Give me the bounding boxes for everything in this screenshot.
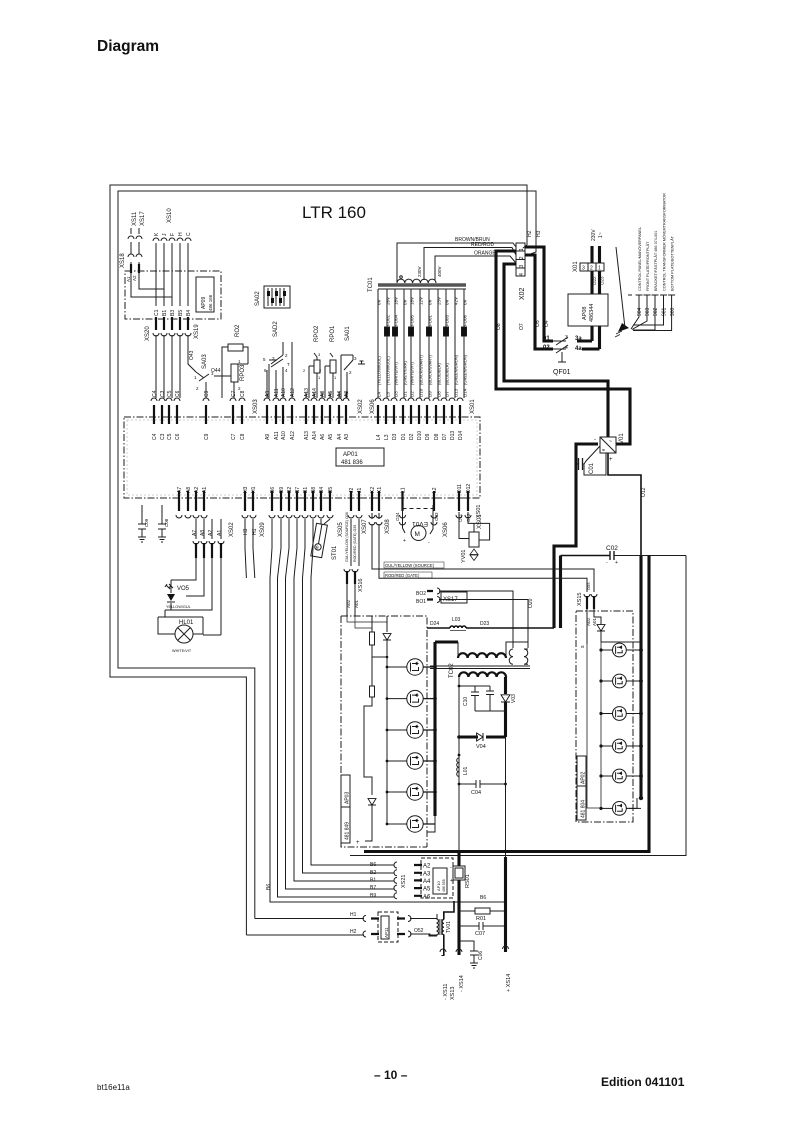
svg-text:A8: A8	[320, 391, 326, 397]
svg-text:B7: B7	[295, 487, 301, 493]
svg-text:J: J	[162, 233, 168, 236]
svg-text:C04: C04	[471, 790, 481, 796]
connector XS15 arcs	[584, 594, 597, 597]
wire labels A9 A11 A10 A12	[265, 388, 296, 397]
QF01 linkage and label	[558, 352, 566, 362]
TC01 secondary wires bundle	[378, 289, 464, 398]
svg-text:A3: A3	[344, 391, 350, 397]
svg-text:O23: O23	[600, 276, 605, 285]
svg-text:901: 901	[662, 307, 668, 316]
svg-text:A9: A9	[265, 391, 271, 397]
MOSFET Q32	[407, 690, 423, 706]
svg-text:A3: A3	[423, 871, 431, 877]
svg-text:D1: D1	[401, 433, 407, 440]
svg-text:3: 3	[582, 266, 585, 272]
svg-text:BOTTOM PLATE/BOTTENPLÅT: BOTTOM PLATE/BOTTENPLÅT	[670, 235, 675, 291]
AP09 value label box	[196, 277, 214, 312]
svg-text:ORANGE: ORANGE	[474, 251, 496, 257]
svg-text:BO1: BO1	[416, 599, 426, 605]
svg-text:D10: D10	[417, 431, 423, 440]
svg-text:A2: A2	[423, 864, 431, 870]
svg-text:400V: 400V	[437, 266, 442, 277]
potentiometer RPO3	[231, 364, 238, 382]
XS02 lower connector arcs	[193, 541, 224, 544]
thermostat ST01	[311, 523, 328, 557]
svg-text:A7: A7	[177, 487, 183, 493]
svg-text:XS02: XS02	[229, 522, 235, 537]
svg-text:C8: C8	[240, 433, 246, 440]
svg-text:3: 3	[519, 265, 525, 268]
svg-text:486 166: 486 166	[208, 294, 213, 311]
XS11/XS17 wires with break arcs	[131, 228, 139, 266]
svg-text:FU03: FU03	[445, 314, 450, 326]
svg-text:O11: O11	[458, 513, 463, 522]
AP01 value label box	[336, 448, 384, 466]
svg-text:+ XS14: + XS14	[506, 974, 512, 992]
XS19/XS20 connector ticks below AP09	[156, 317, 188, 330]
AP01 bottom pin row arcs	[176, 515, 471, 518]
right boundary wire x686	[350, 556, 686, 856]
svg-text:D24: D24	[430, 621, 439, 627]
svg-text:RED/ROD: RED/ROD	[471, 242, 494, 248]
H1 wire to AP11	[246, 919, 364, 936]
wire D24-L03-D23	[427, 627, 554, 629]
svg-text:XS16: XS16	[358, 579, 364, 592]
svg-text:+: +	[403, 538, 406, 544]
svg-text:D13: D13	[450, 431, 456, 440]
XS15 pin ticks	[587, 596, 594, 609]
AP03 lower diode	[368, 799, 376, 805]
thick wire C01-minus down to D24 line	[554, 444, 598, 628]
XS21 pin labels A2-A6	[423, 864, 431, 901]
machine boundary inner loop (wire H3)	[118, 191, 536, 919]
svg-text:B3: B3	[170, 310, 176, 316]
K wires (source/gate feed)	[372, 513, 379, 519]
svg-text:H1: H1	[251, 486, 257, 493]
svg-text:X01: X01	[573, 261, 579, 272]
svg-text:RPO1: RPO1	[330, 325, 336, 342]
svg-text:3: 3	[354, 356, 357, 361]
potentiometer RPO2	[314, 360, 320, 373]
capacitor C08 with ground	[158, 505, 166, 542]
terminal -XS14	[456, 949, 462, 952]
svg-text:C5: C5	[167, 390, 173, 397]
svg-text:(WHITE/VIT): (WHITE/VIT)	[394, 361, 399, 385]
svg-text:(BLUE/BLA): (BLUE/BLA)	[437, 363, 442, 385]
svg-text:A2: A2	[132, 275, 137, 281]
control board AP01 dashed box	[124, 417, 480, 498]
svg-text:-: -	[594, 437, 596, 443]
DIP switch block SA02	[264, 286, 290, 308]
svg-text:A13: A13	[304, 431, 310, 440]
svg-text:RO2: RO2	[235, 324, 241, 337]
XS17 wires and pins	[427, 591, 429, 593]
svg-text:A2: A2	[194, 487, 200, 493]
secondary voltage labels	[377, 297, 468, 305]
svg-text:B9: B9	[279, 487, 285, 493]
svg-text:2: 2	[319, 368, 322, 373]
svg-text:XS10: XS10	[167, 208, 173, 223]
svg-text:+: +	[615, 560, 618, 566]
svg-text:FU04: FU04	[394, 314, 399, 326]
svg-text:B1: B1	[303, 487, 309, 493]
svg-text:A01: A01	[592, 617, 597, 626]
MOSFET Q36	[407, 816, 423, 832]
svg-text:SAD2: SAD2	[273, 321, 279, 337]
svg-text:O4: O4	[544, 320, 550, 327]
svg-text:O8: O8	[496, 323, 502, 330]
svg-text:3: 3	[318, 352, 321, 357]
svg-text:C9: C9	[204, 433, 210, 440]
svg-text:A14: A14	[312, 388, 318, 397]
AP02 gate diode	[597, 625, 605, 631]
switch SAD2 contacts	[269, 342, 283, 398]
svg-text:CONTROL PANEL/MANÖVERPANEL: CONTROL PANEL/MANÖVERPANEL	[638, 227, 642, 291]
svg-text:YV01: YV01	[461, 550, 467, 563]
svg-text:C: C	[186, 232, 192, 236]
svg-text:A10: A10	[281, 388, 287, 397]
svg-text:V04: V04	[476, 744, 486, 750]
svg-text:A1: A1	[217, 530, 223, 536]
MOSFET Q31	[407, 659, 423, 675]
svg-text:RPO2: RPO2	[314, 325, 320, 342]
svg-text:FRONT PLATE/FRONTPLÅT: FRONT PLATE/FRONTPLÅT	[645, 241, 650, 291]
svg-text:Diagram: Diagram	[97, 38, 159, 55]
svg-text:481 836: 481 836	[341, 460, 363, 466]
svg-text:XS01: XS01	[470, 399, 476, 414]
TV01 primary wires from AP11	[414, 919, 437, 936]
svg-text:D12: D12	[466, 484, 472, 493]
svg-text:-: -	[428, 540, 430, 546]
thick wire from C02 node down (x560)	[559, 556, 562, 629]
AP03 drain thick rail	[433, 642, 436, 816]
svg-text:A4: A4	[423, 879, 431, 885]
svg-text:A2: A2	[208, 530, 214, 536]
thick wire O4 from X02-1 to QF01	[525, 247, 553, 341]
wire O44 from SA03 to RPO3	[214, 364, 231, 376]
svg-text:C6: C6	[175, 433, 181, 440]
svg-text:B6: B6	[266, 884, 272, 890]
svg-text:TV01: TV01	[446, 921, 452, 933]
aux winding on TC02	[509, 649, 513, 664]
filter choke L01	[457, 758, 459, 776]
svg-text:K: K	[154, 232, 160, 236]
svg-text:4: 4	[285, 368, 288, 373]
svg-text:0V: 0V	[403, 299, 408, 305]
MOSFET Q21	[613, 643, 627, 657]
svg-text:XS06: XS06	[370, 399, 376, 414]
svg-text:(BLUE/BLA): (BLUE/BLA)	[445, 363, 450, 385]
svg-text:2: 2	[590, 266, 593, 272]
svg-text:BO2: BO2	[416, 591, 426, 597]
svg-text:2: 2	[238, 386, 241, 391]
svg-text:O7: O7	[519, 323, 525, 330]
svg-text:26V: 26V	[386, 297, 391, 305]
svg-text:V03: V03	[511, 694, 517, 703]
svg-text:AP09: AP09	[201, 297, 207, 309]
svg-text:L01: L01	[463, 766, 469, 775]
svg-text:FU02: FU02	[386, 314, 391, 326]
TC01 primary box	[397, 243, 516, 282]
svg-text:B6: B6	[270, 487, 276, 493]
TC02 secondary right thick wire (to +)	[504, 677, 507, 694]
wire H3 into X02 pin2	[525, 247, 536, 256]
svg-text:A12: A12	[290, 388, 296, 397]
svg-text:D10: D10	[419, 388, 424, 397]
svg-text:A11: A11	[274, 431, 280, 440]
ground wires 900-904	[631, 295, 672, 331]
TC02 secondary winding	[459, 672, 506, 677]
svg-text:L3: L3	[386, 391, 391, 397]
XS10 pin arcs	[153, 238, 191, 241]
svg-text:4: 4	[519, 273, 525, 276]
MOSFET Q25	[613, 769, 627, 783]
AP02 bottom drain link	[626, 798, 637, 808]
svg-text:XS18: XS18	[120, 253, 126, 268]
svg-text:D11: D11	[457, 484, 463, 493]
svg-text:+: +	[450, 878, 453, 884]
XS16 pin ticks	[347, 571, 355, 584]
terminal +XS14	[504, 857, 507, 952]
potentiometer RPO1	[330, 360, 336, 373]
XS21 wire labels B6 B2 B1 B7 B9	[370, 862, 376, 899]
AP03 resistor chain	[370, 632, 375, 645]
snubber C10	[459, 686, 506, 711]
svg-text:(WHITE/VIT): (WHITE/VIT)	[410, 361, 415, 385]
AP01 top pin row labels	[152, 431, 464, 440]
AP09 internal wires	[131, 273, 188, 306]
capacitor C01 loop	[576, 446, 606, 475]
svg-text:A12: A12	[290, 431, 296, 440]
wires XS15 into AP02	[587, 609, 601, 644]
svg-text:L1: L1	[401, 487, 407, 493]
svg-text:D13: D13	[454, 388, 459, 397]
MOSFET Q34	[407, 753, 423, 769]
svg-text:C3: C3	[160, 433, 166, 440]
svg-text:- XS11: - XS11	[443, 984, 449, 1000]
power board AP03 dashed box	[341, 616, 427, 847]
svg-text:O33: O33	[434, 512, 439, 521]
svg-text:C02: C02	[606, 545, 618, 552]
XS19/XS20 pin arcs	[153, 333, 191, 336]
svg-text:C6: C6	[175, 390, 181, 397]
svg-text:C09: C09	[144, 518, 149, 527]
AP10 label box	[433, 868, 447, 894]
wire labels C9 C7 C8	[204, 390, 246, 397]
svg-text:-: -	[450, 865, 452, 871]
svg-text:0V: 0V	[377, 299, 382, 305]
svg-text:M: M	[415, 531, 420, 538]
svg-text:H: H	[178, 232, 184, 236]
TC01 secondary winding bar	[378, 283, 466, 287]
XS17 label box	[441, 592, 467, 603]
MOSFET Q23	[613, 707, 627, 721]
svg-text:C3: C3	[160, 390, 166, 397]
wires from XS17 to aux winding O20	[439, 591, 528, 648]
J wires O35 O36 with labels	[351, 519, 359, 566]
svg-text:A6: A6	[320, 434, 326, 440]
svg-text:A5: A5	[423, 887, 431, 893]
AP03 label box	[341, 775, 350, 843]
resistor R01	[459, 910, 506, 912]
svg-text:TC02: TC02	[449, 663, 455, 678]
svg-text:D3: D3	[392, 433, 398, 440]
svg-text:230V: 230V	[417, 266, 422, 277]
svg-text:(BLACK/SVART): (BLACK/SVART)	[428, 354, 433, 385]
svg-text:D14: D14	[463, 388, 468, 397]
svg-text:(BLACK/SVART): (BLACK/SVART)	[419, 354, 424, 385]
svg-text:D8: D8	[437, 391, 442, 397]
filter cap C04	[459, 780, 506, 788]
rectifier diode V03	[501, 695, 510, 702]
svg-text:XS13: XS13	[450, 987, 456, 1000]
svg-text:YELLOW/GUL: YELLOW/GUL	[166, 605, 191, 609]
svg-text:D23: D23	[480, 621, 489, 627]
svg-text:XS05: XS05	[338, 522, 344, 537]
svg-text:B7: B7	[370, 885, 376, 891]
svg-text:+: +	[609, 457, 613, 463]
svg-text:0V: 0V	[428, 299, 433, 305]
L1 L2 arcs	[400, 522, 438, 525]
TC01 tap wires red orange	[424, 248, 516, 281]
svg-text:RPO3: RPO3	[240, 364, 246, 381]
MOSFET Q35	[407, 784, 423, 800]
svg-text:B1: B1	[370, 877, 376, 883]
svg-text:C7: C7	[231, 390, 237, 397]
svg-text:C4: C4	[152, 433, 158, 440]
transformer TV01	[437, 919, 439, 935]
switch SA03 blade and contacts	[196, 372, 209, 398]
svg-text:2: 2	[303, 368, 306, 373]
svg-text:XS08: XS08	[385, 519, 391, 534]
svg-text:XS09: XS09	[260, 522, 266, 537]
thick wire O8 from X02 left down to V01 right	[496, 251, 630, 444]
svg-text:- XS14: - XS14	[459, 975, 465, 992]
svg-text:LTR 160: LTR 160	[302, 203, 366, 222]
svg-text:C10: C10	[463, 697, 469, 706]
fuse name labels	[386, 314, 468, 326]
thick return rail x649 from C02 to bottom	[364, 556, 649, 852]
svg-text:1: 1	[194, 375, 197, 380]
svg-text:C9: C9	[204, 390, 210, 397]
svg-text:H3: H3	[536, 230, 542, 237]
svg-text:XS21: XS21	[401, 875, 407, 888]
svg-text:AP02: AP02	[581, 772, 587, 784]
svg-text:XS02: XS02	[358, 399, 364, 414]
svg-text:1: 1	[519, 248, 525, 251]
svg-text:GUL/YELLOW (SOURCE) O36: GUL/YELLOW (SOURCE) O36	[345, 512, 349, 562]
MOSFET Q26	[613, 802, 627, 816]
svg-text:H3: H3	[243, 486, 249, 493]
thick wire O5 from X02-2 to QF01	[525, 255, 553, 349]
svg-text:B2: B2	[287, 487, 293, 493]
svg-text:AP10: AP10	[436, 880, 441, 891]
svg-text:18V: 18V	[394, 297, 399, 305]
svg-text:(YELLOW/GUL): (YELLOW/GUL)	[377, 356, 382, 385]
svg-text:XS03: XS03	[253, 399, 259, 414]
svg-text:1: 1	[318, 375, 321, 380]
svg-text:B6: B6	[480, 895, 486, 901]
svg-text:C07: C07	[475, 931, 485, 937]
svg-text:Edition 041101: Edition 041101	[601, 1075, 685, 1089]
connector X01 body	[580, 263, 604, 271]
svg-text:A4: A4	[337, 434, 343, 440]
freewheel diode V04	[459, 735, 506, 738]
switch SA01 contact	[341, 355, 365, 398]
svg-text:A1: A1	[202, 487, 208, 493]
svg-text:C01: C01	[589, 462, 595, 474]
chassis ground symbol	[618, 323, 629, 332]
bottom thick rail	[364, 850, 649, 853]
svg-text:C5: C5	[167, 433, 173, 440]
svg-text:O52: O52	[414, 928, 424, 934]
svg-text:O12: O12	[641, 487, 647, 497]
AP03 gate bus	[372, 657, 387, 824]
svg-text:481 849: 481 849	[345, 822, 351, 840]
svg-text:FU06: FU06	[463, 314, 468, 326]
svg-text:XS20: XS20	[145, 326, 151, 341]
svg-text:D14: D14	[458, 431, 464, 440]
svg-text:1: 1	[598, 266, 601, 272]
svg-text:V01: V01	[619, 433, 625, 444]
svg-text:2: 2	[196, 386, 199, 391]
svg-text:X02: X02	[519, 287, 526, 300]
230V supply thick wires	[592, 246, 600, 263]
svg-text:A10: A10	[281, 431, 287, 440]
thick link rail to TC02	[435, 640, 458, 643]
svg-text:A5: A5	[328, 391, 334, 397]
svg-text:BRACKET/FÄSTPLÅT 486 374-001: BRACKET/FÄSTPLÅT 486 374-001	[653, 231, 658, 292]
thick rail x641 down to AP02 drains	[639, 555, 642, 798]
svg-text:– 10 –: – 10 –	[374, 1068, 408, 1082]
svg-text:B6: B6	[370, 862, 376, 868]
svg-text:B8: B8	[311, 487, 317, 493]
svg-text:(YELLOW/GUL): (YELLOW/GUL)	[386, 356, 391, 385]
svg-text:ST01: ST01	[332, 545, 338, 560]
svg-text:A11: A11	[274, 388, 280, 397]
machine boundary outer loop (wire H2)	[110, 185, 527, 935]
svg-text:C08: C08	[164, 518, 169, 527]
svg-text:O44: O44	[211, 368, 221, 374]
A02 A01 wires into AP03	[347, 584, 355, 616]
XS21 connector dashed box	[421, 858, 453, 898]
svg-text:D9: D9	[428, 391, 433, 397]
svg-text:B5: B5	[328, 487, 334, 493]
XS21 pin ticks	[414, 865, 422, 896]
svg-text:FU05: FU05	[410, 314, 415, 326]
svg-text:H2: H2	[527, 230, 533, 237]
wire labels C4 C3 C5 C6 mid	[152, 390, 181, 397]
svg-text:AP03: AP03	[345, 792, 351, 804]
svg-text:C7: C7	[231, 433, 237, 440]
svg-text:L4: L4	[376, 434, 382, 440]
svg-text:L4: L4	[377, 391, 382, 397]
thick wire O12 from V01+ down right rail	[608, 453, 641, 555]
svg-text:D1: D1	[403, 391, 408, 397]
capacitor C06 with ground	[459, 941, 478, 968]
svg-text:ROD/RED (GATE): ROD/RED (GATE)	[385, 573, 420, 578]
svg-text:0V: 0V	[445, 299, 450, 305]
svg-text:1~: 1~	[598, 232, 604, 238]
svg-text:A5: A5	[328, 434, 334, 440]
chassis plate rotated text block	[638, 193, 675, 291]
svg-text:01: 01	[543, 336, 550, 342]
svg-text:O5: O5	[535, 320, 541, 327]
svg-text:GUL/YELLOW (SOURCE): GUL/YELLOW (SOURCE)	[385, 563, 435, 568]
svg-text:230V: 230V	[591, 229, 597, 241]
svg-text:L2: L2	[432, 487, 438, 493]
svg-text:O55: O55	[586, 582, 591, 590]
